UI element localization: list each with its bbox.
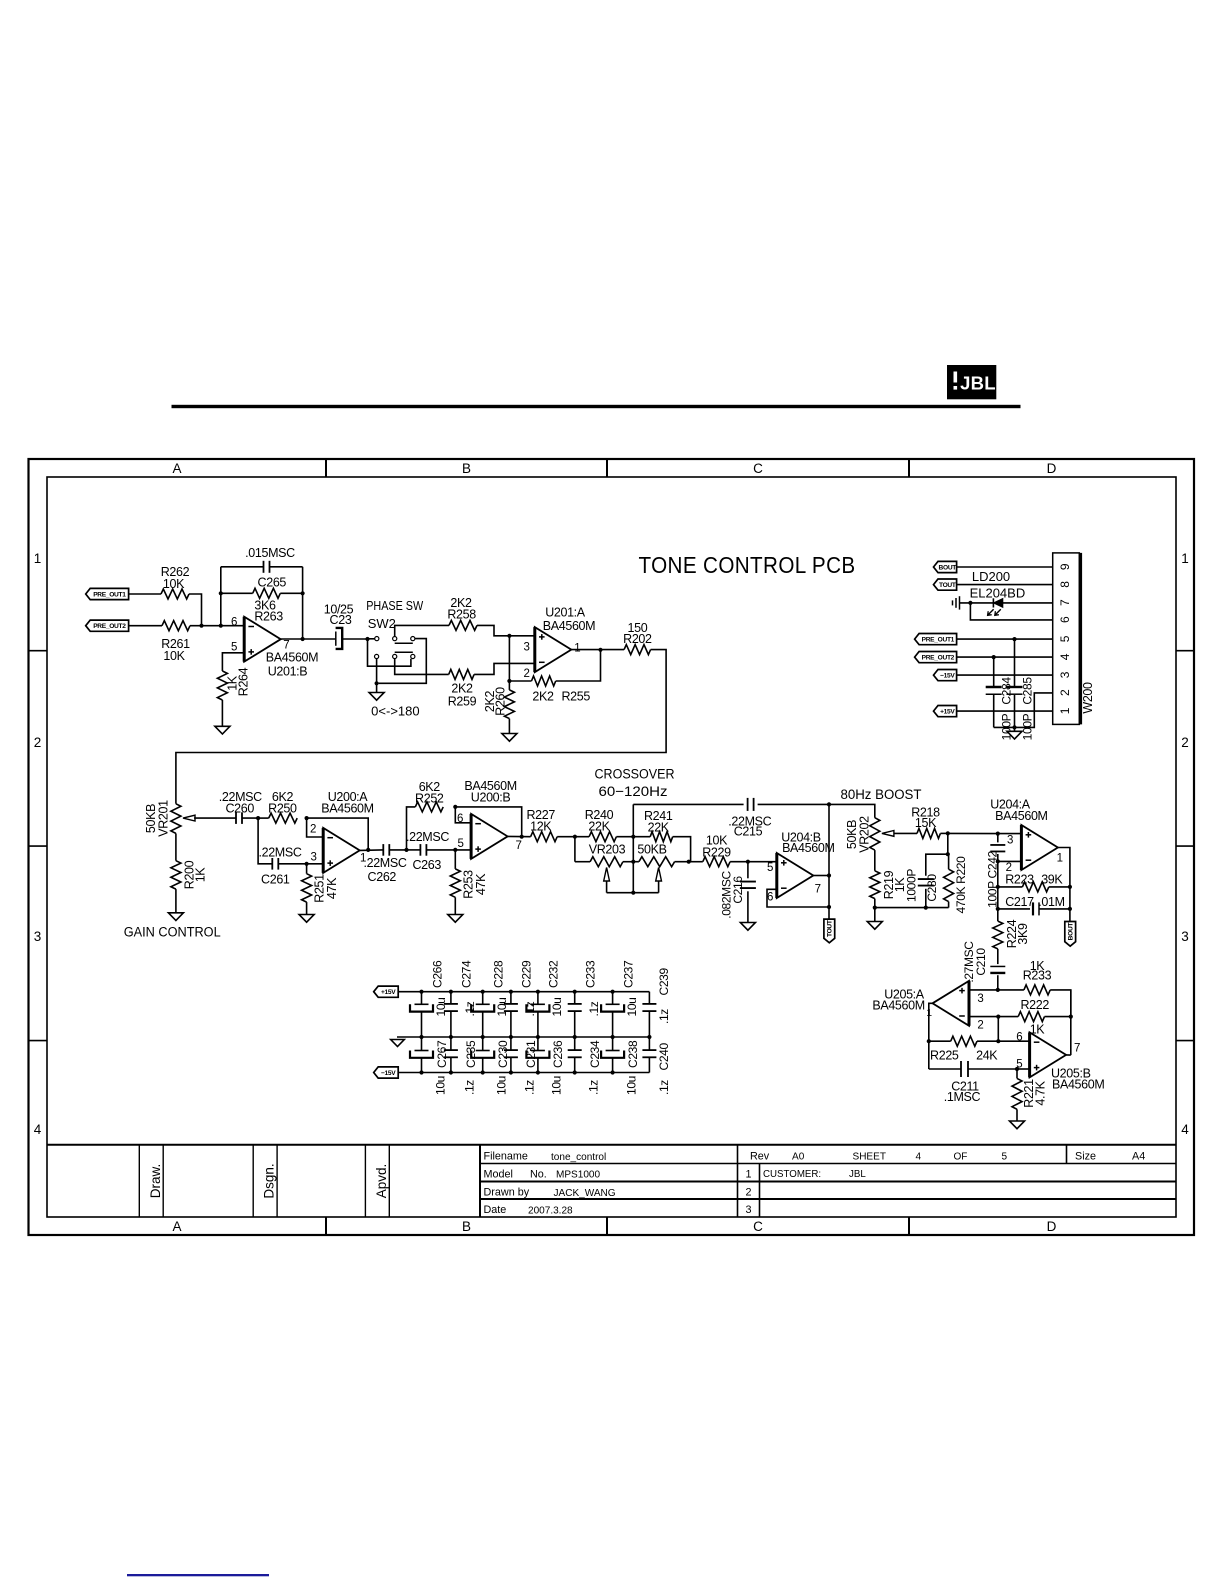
capacitor C233 .1z xyxy=(573,990,577,994)
wire C263 to pin5 node xyxy=(426,849,455,851)
node VR203/50KB xyxy=(631,860,635,864)
svg-text:.22MSC: .22MSC xyxy=(258,845,301,859)
LED arrows xyxy=(988,609,994,615)
svg-text:1: 1 xyxy=(745,1169,751,1181)
wire to U204:A pin2 xyxy=(998,860,1022,862)
svg-text:.1z: .1z xyxy=(587,1080,601,1095)
svg-text:6: 6 xyxy=(231,617,237,629)
svg-text:BA4560M: BA4560M xyxy=(995,809,1047,823)
wire SW2 bottom middle to R259 xyxy=(395,659,449,675)
wire U205:B output xyxy=(1066,1054,1071,1056)
wire diode return pin6 xyxy=(970,603,1052,620)
svg-text:80Hz BOOST: 80Hz BOOST xyxy=(841,787,922,803)
wire C217 left vertical xyxy=(997,887,999,909)
svg-text:9: 9 xyxy=(1058,563,1072,570)
svg-text:3: 3 xyxy=(1058,671,1072,678)
wire VR202 to R218 xyxy=(894,832,917,834)
tag +15V to W200 xyxy=(934,706,957,717)
wire pin2 to ground rail xyxy=(994,693,1053,728)
capacitor C280 1000P xyxy=(947,833,949,854)
svg-text:C236: C236 xyxy=(551,1040,565,1068)
svg-text:R229: R229 xyxy=(702,846,731,860)
wire pin2 to pin6 vertical xyxy=(997,1017,999,1042)
svg-text:PRE_OUT1: PRE_OUT1 xyxy=(93,592,126,599)
svg-text:.1z: .1z xyxy=(587,1001,601,1016)
node C260/R250/C261 xyxy=(256,816,260,820)
svg-text:.1z: .1z xyxy=(523,1080,537,1095)
svg-text:2007.3.28: 2007.3.28 xyxy=(528,1206,573,1217)
svg-text:3: 3 xyxy=(310,851,316,863)
resistor R258 2K2 xyxy=(449,620,477,630)
node output/R252 feedback xyxy=(520,835,524,839)
capacitor C239 .1z xyxy=(648,992,650,1004)
svg-text:PRE_OUT2: PRE_OUT2 xyxy=(93,623,126,630)
wire R227 to crossover xyxy=(557,836,589,838)
capacitor C230 10u xyxy=(482,1037,484,1051)
svg-text:R259: R259 xyxy=(448,695,477,709)
wire R218 to node xyxy=(940,832,947,834)
capacitor C237 10u xyxy=(611,990,615,994)
svg-text:Rev: Rev xyxy=(750,1150,770,1162)
svg-text:10K: 10K xyxy=(163,577,185,591)
node R225 left xyxy=(927,1039,931,1043)
wire pin3 to U205:A xyxy=(969,989,998,991)
svg-text:SW2: SW2 xyxy=(368,616,396,631)
svg-text:10u: 10u xyxy=(434,998,448,1017)
svg-text:LD200: LD200 xyxy=(972,569,1010,584)
svg-text:2: 2 xyxy=(523,668,529,680)
svg-text:U201:B: U201:B xyxy=(268,665,308,679)
wire R233 to R222 node xyxy=(1050,990,1071,1017)
resistor R253 47K xyxy=(454,850,456,869)
svg-text:7: 7 xyxy=(1074,1043,1080,1055)
wire PRE_OUT2 to R261 xyxy=(129,625,162,627)
svg-text:Date: Date xyxy=(484,1204,507,1216)
wire to U204:A pin3 xyxy=(948,832,998,834)
svg-text:JBL: JBL xyxy=(960,373,996,394)
svg-text:C229: C229 xyxy=(520,960,534,988)
resistor R224 3K9 xyxy=(997,909,999,921)
resistor R260 2K2 to ground xyxy=(508,681,510,690)
wire R224 to C210 xyxy=(997,949,999,964)
node R255/R260 junction xyxy=(507,679,511,683)
op-amp U205:A BA4560M (points left) xyxy=(933,981,970,1026)
svg-text:Dsgn.: Dsgn. xyxy=(262,1163,277,1198)
diode LD200 EL204BD xyxy=(992,598,994,607)
wire U205:A output vertical xyxy=(929,1003,933,1069)
op-amp U205:B BA4560M xyxy=(1030,1032,1067,1077)
svg-text:22K: 22K xyxy=(588,819,610,833)
wire to U205:B pin5 xyxy=(1017,1068,1030,1070)
svg-text:PRE_OUT1: PRE_OUT1 xyxy=(922,637,955,644)
svg-text:TOUT: TOUT xyxy=(827,920,834,937)
wire pin2 vertical xyxy=(997,861,999,887)
node pin2 xyxy=(996,859,1000,863)
svg-text:tone_control: tone_control xyxy=(551,1152,606,1163)
wiper arrow 50KB xyxy=(656,868,662,882)
svg-text:R258: R258 xyxy=(447,607,476,621)
capacitor C285 100P xyxy=(1014,639,1016,686)
node C280 bottom xyxy=(924,906,928,910)
svg-text:22K: 22K xyxy=(648,820,670,834)
svg-text:R202: R202 xyxy=(623,632,652,646)
svg-text:0<->180: 0<->180 xyxy=(371,704,419,719)
svg-text:TONE CONTROL PCB: TONE CONTROL PCB xyxy=(639,552,856,578)
svg-text:BOUT: BOUT xyxy=(1068,923,1075,941)
op-amp U200:A BA4560M xyxy=(323,828,360,873)
capacitor C215 .22MSC xyxy=(633,803,743,805)
svg-text:.015MSC: .015MSC xyxy=(245,546,295,560)
svg-text:7: 7 xyxy=(815,884,821,896)
svg-text:C215: C215 xyxy=(734,824,763,838)
node ground rail xyxy=(1012,725,1016,729)
wire feedback to output xyxy=(455,807,521,837)
node pin5/C216 xyxy=(746,860,750,864)
resistor R219 1K xyxy=(870,871,880,899)
title block xyxy=(47,1145,1176,1217)
svg-text:10u: 10u xyxy=(550,1076,564,1095)
ground below R200 xyxy=(168,913,183,921)
svg-text:+15V: +15V xyxy=(940,709,955,716)
wire ground rail right xyxy=(875,907,949,909)
svg-text:1: 1 xyxy=(1057,853,1063,865)
svg-text:10u: 10u xyxy=(550,998,564,1017)
node R263 left xyxy=(219,591,223,595)
wire U201:B output xyxy=(281,638,336,640)
resistor R240 22K xyxy=(589,832,616,842)
wire R241 wrap xyxy=(673,837,691,862)
JBL logo xyxy=(947,365,996,399)
node R261/R262 junction xyxy=(199,624,203,628)
svg-text:C262: C262 xyxy=(368,870,397,884)
capacitor C228 10u xyxy=(481,990,485,994)
ground below R219 xyxy=(874,908,876,922)
svg-text:10u: 10u xyxy=(625,998,639,1017)
wire R250 to U200:A pin2 xyxy=(307,818,324,837)
wire feedback over U200:A xyxy=(307,818,369,850)
svg-text:B: B xyxy=(462,1219,471,1234)
node pin3 junction xyxy=(507,634,511,638)
svg-text:R233: R233 xyxy=(1023,969,1052,983)
resistor R251 47K xyxy=(306,864,308,874)
svg-text:5: 5 xyxy=(1016,1059,1022,1071)
node pin2/R222 xyxy=(996,1015,1000,1019)
svg-text:2: 2 xyxy=(1181,735,1189,750)
wire pin6 to U205:B xyxy=(998,1040,1029,1042)
svg-text:2: 2 xyxy=(977,1020,983,1032)
svg-text:A0: A0 xyxy=(792,1151,805,1162)
svg-text:TOUT: TOUT xyxy=(939,582,956,589)
resistor R221 4.7K xyxy=(1016,1069,1018,1078)
svg-text:MPS1000: MPS1000 xyxy=(556,1170,600,1181)
resistor R227 12K xyxy=(531,832,558,842)
node pin3/C242 xyxy=(996,832,1000,836)
op-amp U204:B BA4560M xyxy=(777,853,814,898)
wire U205:A pin2 xyxy=(969,1016,998,1018)
svg-text:C239: C239 xyxy=(657,968,671,996)
wire to R229 xyxy=(689,861,703,863)
wire crossover input vertical xyxy=(574,837,576,862)
earth symbol at LD200 xyxy=(952,600,954,605)
svg-text:3: 3 xyxy=(523,642,529,654)
capacitor C261 .22MSC xyxy=(258,818,271,864)
wire SW2 bottom left to ground xyxy=(376,659,378,693)
resistor R200 1K xyxy=(171,861,181,889)
svg-text:5: 5 xyxy=(1002,1151,1008,1162)
svg-text:Size: Size xyxy=(1075,1150,1096,1162)
svg-text:6: 6 xyxy=(1058,616,1072,623)
svg-text:C232: C232 xyxy=(547,960,561,988)
svg-text:10u: 10u xyxy=(433,1076,447,1095)
wire +15V pin1 xyxy=(957,710,1053,712)
svg-text:CROSSOVER: CROSSOVER xyxy=(595,767,675,783)
svg-text:VR201: VR201 xyxy=(156,800,170,837)
capacitor C263 .22MSC xyxy=(407,849,421,851)
node R218/R220 xyxy=(946,831,950,835)
svg-text:5: 5 xyxy=(231,642,237,654)
svg-text:3: 3 xyxy=(977,993,983,1005)
node R263 right xyxy=(301,591,305,595)
resistor R252 6K2 feedback xyxy=(407,807,416,850)
wire wiper bus xyxy=(607,892,659,894)
capacitor C210 .27MSC xyxy=(990,965,1005,967)
node pin5/R221 xyxy=(1015,1067,1019,1071)
svg-text:PRE_OUT2: PRE_OUT2 xyxy=(922,655,955,662)
svg-text:2: 2 xyxy=(34,735,42,750)
resistor R222 1K xyxy=(998,1016,1018,1018)
svg-text:.22MSC: .22MSC xyxy=(406,830,449,844)
wire C261 to pin3 node xyxy=(278,863,306,865)
svg-text:C267: C267 xyxy=(435,1040,449,1068)
capacitor C231 .1z xyxy=(510,1037,512,1050)
svg-text:Filename: Filename xyxy=(484,1150,528,1162)
wire -15V pin3 xyxy=(957,674,1053,676)
svg-text:39K: 39K xyxy=(1041,873,1063,887)
wire R221 ground xyxy=(1016,1109,1018,1121)
resistor R264 1K xyxy=(217,671,227,700)
wiper arrow VR203 xyxy=(604,868,610,882)
ground below R264 xyxy=(215,726,230,734)
wire to U200:B pin5 xyxy=(455,849,471,851)
tag PRE_OUT2 input xyxy=(86,620,129,631)
svg-text:6: 6 xyxy=(767,892,773,904)
resistor R263 3K6 feedback xyxy=(221,592,253,594)
svg-text:EL204BD: EL204BD xyxy=(970,586,1026,601)
svg-text:1: 1 xyxy=(1058,707,1072,714)
svg-text:2: 2 xyxy=(1058,689,1072,696)
svg-text:C263: C263 xyxy=(412,858,441,872)
svg-text:Draw.: Draw. xyxy=(148,1164,163,1199)
wire R264 to ground xyxy=(221,700,223,726)
resistor R259 2K2 xyxy=(449,669,474,679)
svg-text:1000P: 1000P xyxy=(904,869,918,902)
svg-text:B: B xyxy=(462,461,471,476)
svg-text:C237: C237 xyxy=(621,960,635,988)
svg-text:JACK_WANG: JACK_WANG xyxy=(554,1188,616,1199)
svg-text:5: 5 xyxy=(767,862,773,874)
potentiometer 50KB xyxy=(633,861,639,863)
resistor R225 24K xyxy=(929,1040,951,1042)
resistor R220 470K xyxy=(948,854,950,869)
svg-text:C228: C228 xyxy=(492,960,506,988)
svg-text:R260: R260 xyxy=(493,687,507,716)
resistor R255 2K2 feedback xyxy=(509,680,531,682)
ground W200 caps xyxy=(1007,731,1022,739)
tag +15V rail xyxy=(374,986,399,997)
svg-text:R250: R250 xyxy=(268,801,297,815)
wire TOUT pin8 xyxy=(957,584,1053,586)
node C284 top xyxy=(992,655,996,659)
wire BOUT pin9 xyxy=(957,566,1053,568)
svg-text:R225: R225 xyxy=(930,1049,959,1063)
node U201:B output xyxy=(301,637,305,641)
svg-text:C266: C266 xyxy=(430,960,444,988)
wire C262 to node xyxy=(389,849,406,851)
capacitor C262 .22MSC xyxy=(382,844,384,856)
svg-text:10u: 10u xyxy=(624,1076,638,1095)
node SW2 ground junction xyxy=(375,681,379,685)
svg-text:.1z: .1z xyxy=(657,1080,671,1095)
node R222/R233/output xyxy=(1069,1015,1073,1019)
svg-text:R255: R255 xyxy=(561,689,590,703)
svg-text:3: 3 xyxy=(745,1204,751,1216)
svg-text:3: 3 xyxy=(1181,929,1189,944)
svg-text:R222: R222 xyxy=(1020,998,1049,1012)
node crossover input xyxy=(573,835,577,839)
wire R229 to pin5 node xyxy=(730,861,777,863)
svg-text:4: 4 xyxy=(916,1151,922,1162)
node R219 ground rail xyxy=(873,906,877,910)
wire SW2 top middle to R258 xyxy=(395,625,449,636)
wire +15V rail xyxy=(398,991,649,993)
svg-text:Apvd.: Apvd. xyxy=(374,1164,389,1199)
wire R258 to U201:A pin3 xyxy=(477,625,535,635)
svg-text:2K2: 2K2 xyxy=(532,689,554,703)
svg-text:5: 5 xyxy=(1058,635,1072,642)
svg-text:C260: C260 xyxy=(225,801,254,815)
wire -15V rail xyxy=(398,1072,649,1074)
svg-text:1: 1 xyxy=(1181,551,1189,566)
wire earth to diode xyxy=(960,602,994,604)
node R252 right xyxy=(453,805,457,809)
svg-text:.1z: .1z xyxy=(657,1009,671,1024)
ground below C216 xyxy=(740,923,755,931)
resistor R223 39K xyxy=(998,886,1023,888)
svg-text:R263: R263 xyxy=(254,610,283,624)
svg-text:4: 4 xyxy=(1058,653,1072,660)
wire output vertical U205:B xyxy=(1070,990,1072,1055)
svg-text:7: 7 xyxy=(515,840,521,852)
wire to U200:A pin3 xyxy=(307,863,324,865)
node output/feedback xyxy=(366,848,370,852)
wire U201:B pin5 to R264 xyxy=(222,653,244,671)
resistor R218 15K xyxy=(917,828,940,838)
wire SW2 input to bottom right contact xyxy=(368,639,411,666)
wire C23 to SW2 xyxy=(342,638,367,640)
node R223 right xyxy=(1068,885,1072,889)
svg-text:C261: C261 xyxy=(261,873,290,887)
svg-text:24K: 24K xyxy=(976,1049,998,1063)
svg-text:8: 8 xyxy=(1058,581,1072,588)
node C215 right xyxy=(827,802,831,806)
svg-text:No.: No. xyxy=(530,1169,547,1181)
capacitor C267 10u xyxy=(421,1037,423,1051)
node output xyxy=(827,873,831,877)
header rule line xyxy=(172,405,1021,408)
wire R219 ground node xyxy=(874,899,876,908)
capacitor C284 100P xyxy=(993,657,995,686)
node wiper bus xyxy=(631,891,635,895)
svg-text:3: 3 xyxy=(34,929,42,944)
svg-text:.1z: .1z xyxy=(523,1001,537,1016)
svg-text:Model: Model xyxy=(484,1169,513,1181)
wire U201:A output xyxy=(571,649,624,651)
svg-text:50KB: 50KB xyxy=(637,843,666,857)
svg-text:C23: C23 xyxy=(330,613,352,627)
wire mid ground rail xyxy=(397,1036,649,1038)
capacitor C229 .1z xyxy=(509,990,513,994)
svg-text:.1MSC: .1MSC xyxy=(944,1090,981,1104)
svg-text:C280: C280 xyxy=(925,874,939,902)
node feedback at pin6 xyxy=(219,624,223,628)
capacitor C266 10u xyxy=(419,990,423,994)
node C262/C263/R252 xyxy=(404,848,408,852)
capacitor C274 .1z xyxy=(449,990,453,994)
svg-text:15K: 15K xyxy=(915,816,937,830)
wire output vertical to TOUT xyxy=(828,804,830,919)
svg-text:C: C xyxy=(753,461,763,476)
capacitor C217 .01M xyxy=(998,908,1030,910)
wire R252 to pin6 xyxy=(455,807,471,823)
capacitor C235 .1z xyxy=(450,1037,452,1050)
svg-text:.22MSC: .22MSC xyxy=(363,856,406,870)
capacitor C23 10/25 polarized xyxy=(335,632,337,646)
tag PRE_OUT1 to W200 xyxy=(915,634,957,645)
footer blue line xyxy=(127,1574,269,1576)
wire feedback vertical left xyxy=(220,567,222,626)
node output/R255 xyxy=(598,648,602,652)
wire PRE_OUT2 pin4 xyxy=(957,656,1053,658)
svg-text:1: 1 xyxy=(34,551,42,566)
svg-text:R264: R264 xyxy=(236,667,250,696)
wire VR201 to R200 xyxy=(175,833,177,860)
node R223 left xyxy=(996,885,1000,889)
ground below R253 xyxy=(448,915,463,923)
svg-text:4.7K: 4.7K xyxy=(1033,1080,1047,1105)
svg-text:7: 7 xyxy=(1058,599,1072,606)
svg-text:10u: 10u xyxy=(495,998,509,1017)
svg-text:D: D xyxy=(1047,461,1057,476)
svg-text:C217: C217 xyxy=(1005,895,1034,909)
svg-text:U201:A: U201:A xyxy=(545,606,586,620)
wire SW2 top right loop xyxy=(379,639,427,684)
wire R202 feedback to VR201 xyxy=(176,650,666,804)
wire VR203 to node xyxy=(623,861,633,863)
svg-text:47K: 47K xyxy=(325,877,339,899)
svg-text:BA4560M: BA4560M xyxy=(543,619,595,633)
resistor R261 xyxy=(162,621,190,631)
svg-text:10u: 10u xyxy=(495,1076,509,1095)
ground below R260 xyxy=(502,734,517,742)
svg-text:470K R220: 470K R220 xyxy=(954,856,968,914)
svg-text:VR203: VR203 xyxy=(589,843,626,857)
svg-text:4: 4 xyxy=(34,1122,42,1137)
node U205:A pin3 xyxy=(996,988,1000,992)
node diode anode xyxy=(968,601,972,605)
svg-text:C285: C285 xyxy=(1020,677,1034,705)
wire wiper to C260 xyxy=(194,817,236,819)
resistor R250 6K2 xyxy=(258,817,269,819)
